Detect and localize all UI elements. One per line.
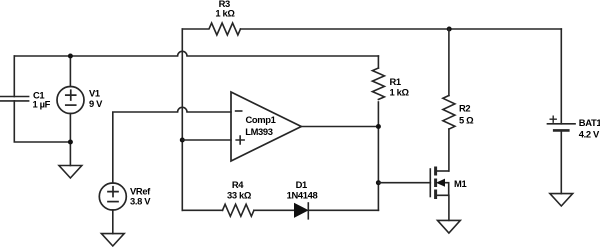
node junction R2 top	[447, 27, 452, 32]
wire comparator output	[301, 126, 378, 128]
svg-text:9 V: 9 V	[89, 98, 103, 109]
wire M1 source to ground	[448, 195, 450, 220]
label VRef value	[130, 185, 151, 206]
label M1	[454, 178, 466, 189]
node junction V1 top on rail	[68, 54, 73, 59]
wire supply rail y=56 with hop over x=182.3	[14, 51, 378, 56]
capacitor C1	[1, 97, 29, 101]
wire plus input	[182, 139, 231, 141]
label C1 value	[33, 89, 51, 109]
resistor R3	[182, 23, 240, 35]
svg-text:4.2 V: 4.2 V	[579, 128, 600, 139]
node junction C1/V1 bottom	[68, 140, 73, 145]
wire VRef top up and right to comparator minus input, hop over x=182.3	[113, 107, 231, 183]
wire top rail from R3 to battery corner	[241, 28, 562, 30]
wire battery bottom to ground	[560, 130, 562, 193]
wire VRef bottom to ground	[112, 210, 114, 234]
svg-text:1 kΩ: 1 kΩ	[215, 8, 235, 19]
label V1 value	[89, 88, 103, 110]
wire R1 top corner from rail down	[377, 56, 379, 68]
wire D1 to output vertical	[308, 209, 378, 211]
svg-text:1N4148: 1N4148	[287, 190, 318, 201]
node junction plus-input tap	[180, 138, 185, 143]
svg-text:5 Ω: 5 Ω	[459, 115, 474, 126]
node junction output/R1	[376, 124, 381, 129]
svg-text:R2: R2	[459, 103, 470, 114]
svg-text:M1: M1	[454, 178, 466, 189]
svg-text:33 kΩ: 33 kΩ	[227, 190, 252, 201]
svg-text:V1: V1	[89, 88, 100, 99]
wire R4 to D1	[254, 209, 295, 211]
battery BAT1	[548, 116, 576, 130]
wire M1 drain up to R2	[448, 129, 450, 171]
svg-text:3.8 V: 3.8 V	[130, 196, 151, 207]
ground under VRef	[101, 234, 124, 246]
ground under BAT1	[550, 194, 573, 206]
resistor R2	[443, 96, 455, 130]
label D1 value	[287, 179, 318, 201]
svg-text:R1: R1	[390, 76, 401, 87]
svg-text:D1: D1	[296, 179, 307, 190]
label R3 value	[215, 0, 235, 19]
wire C1 bottom to ground rail corner	[14, 101, 70, 142]
svg-text:1 kΩ: 1 kΩ	[390, 86, 410, 97]
node junction gate tap	[376, 180, 381, 185]
wire bottom feedback R4 lead	[182, 209, 222, 211]
resistor R4	[223, 204, 254, 216]
ground under M1	[438, 220, 461, 233]
wire V1 top stub	[69, 56, 71, 87]
voltage source VRef	[99, 183, 126, 210]
diode D1	[295, 203, 309, 219]
svg-text:Comp1: Comp1	[246, 114, 276, 125]
svg-text:1 µF: 1 µF	[33, 99, 51, 110]
ground under V1	[59, 166, 82, 179]
label BAT1 value	[579, 117, 600, 139]
wire V1 bottom to ground	[69, 114, 71, 166]
transistor M1	[430, 167, 448, 200]
wire left vertical from rail to C1 top plate	[13, 56, 15, 97]
label R4 value	[227, 179, 252, 201]
wire R1 bottom to output node and down to bottom wire	[377, 102, 379, 210]
resistor R1	[372, 68, 384, 99]
wire feedback vertical x=182.3 from R3 corner down to R4 wire	[181, 29, 183, 210]
wire R2 top to rail	[448, 29, 450, 96]
voltage source V1	[57, 87, 84, 114]
svg-text:BAT1: BAT1	[579, 117, 600, 128]
op-amp Comp1	[231, 92, 301, 161]
wire battery top from rail	[560, 29, 562, 124]
label Comp1	[245, 114, 275, 137]
wire gate	[378, 182, 430, 184]
label R2 value	[459, 103, 474, 126]
svg-text:LM393: LM393	[245, 126, 273, 137]
label R1 value	[390, 76, 410, 98]
svg-text:R4: R4	[232, 179, 244, 190]
